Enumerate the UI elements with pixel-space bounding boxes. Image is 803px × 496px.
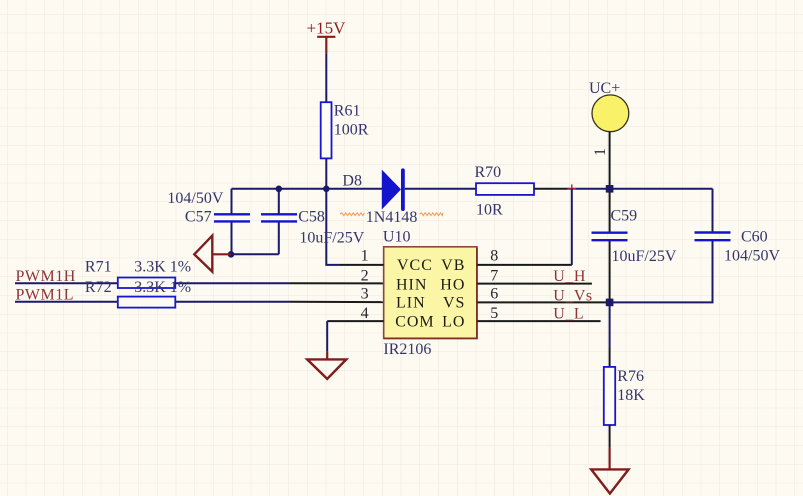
wire R71 to pin2: [175, 282, 290, 284]
svg-text:10R: 10R: [476, 202, 503, 219]
capacitor C60: [695, 229, 781, 265]
svg-text:D8: D8: [342, 172, 362, 189]
pin 8 VB: [441, 248, 572, 274]
node junction R61 bottom: [323, 186, 330, 193]
svg-text:U10: U10: [383, 228, 411, 245]
power symbol +15V: [307, 19, 347, 54]
node junction C58 top: [276, 186, 283, 193]
svg-text:104/50V: 104/50V: [167, 190, 223, 207]
svg-text:R72: R72: [85, 279, 112, 296]
svg-text:1: 1: [361, 248, 369, 265]
svg-text:7: 7: [490, 268, 498, 285]
svg-text:5: 5: [490, 305, 498, 322]
pin 6 VS: [443, 286, 606, 312]
wire C60 branch: [610, 189, 713, 303]
svg-text:100R: 100R: [334, 121, 369, 138]
svg-text:8: 8: [490, 248, 498, 265]
svg-text:10uF/25V: 10uF/25V: [612, 248, 677, 265]
svg-text:2: 2: [361, 268, 369, 285]
capacitor C57: [167, 189, 250, 255]
pin 1 of UC+: [592, 132, 610, 189]
svg-text:C59: C59: [611, 208, 638, 225]
node junction bottom rail: [228, 251, 235, 258]
svg-text:LIN: LIN: [396, 295, 426, 312]
pin 7 HO: [440, 268, 592, 294]
svg-text:R76: R76: [617, 368, 644, 385]
ground (R76): [591, 448, 628, 494]
wire R70 to UC junction: [534, 188, 572, 190]
power port UC+: [589, 80, 629, 132]
IC U10 IR2106: [383, 228, 477, 358]
resistor R70: [475, 164, 535, 219]
wire bottom rail C57-C58: [231, 253, 279, 255]
svg-text:C58: C58: [298, 209, 325, 226]
svg-text:VS: VS: [443, 295, 465, 312]
capacitor C59: [592, 192, 677, 302]
ground (COM pin4): [307, 321, 346, 379]
svg-text:+15V: +15V: [307, 19, 347, 38]
net label PWM1L: [15, 286, 118, 303]
svg-text:18K: 18K: [617, 387, 645, 404]
diode D8: [342, 170, 403, 209]
svg-text:1: 1: [592, 148, 609, 156]
svg-text:C60: C60: [741, 229, 768, 246]
resistor R71: [85, 258, 191, 288]
node junction VS rail (square): [606, 299, 614, 307]
svg-text:U_L: U_L: [553, 306, 584, 323]
net label PWM1H: [15, 268, 118, 285]
svg-text:HIN: HIN: [396, 277, 427, 294]
svg-text:R61: R61: [334, 103, 361, 120]
svg-text:U_H: U_H: [553, 268, 586, 285]
svg-text:1N4148: 1N4148: [366, 209, 418, 226]
svg-text:R70: R70: [475, 164, 502, 181]
ground left (C57/C58): [194, 236, 231, 272]
svg-text:VB: VB: [441, 257, 465, 274]
wire top rail C57 to diode: [232, 188, 383, 190]
svg-text:4: 4: [361, 305, 369, 322]
resistor R61: [321, 102, 369, 158]
svg-text:104/50V: 104/50V: [724, 248, 780, 265]
svg-text:R71: R71: [85, 258, 112, 275]
svg-text:3: 3: [361, 286, 369, 303]
resistor R76: [604, 302, 646, 448]
svg-text:3.3K 1%: 3.3K 1%: [134, 259, 191, 276]
wire R61 to top rail: [325, 158, 327, 188]
wire +15V to R61: [325, 53, 327, 102]
capacitor C58: [261, 189, 365, 255]
pin 4 COM: [327, 305, 434, 331]
svg-text:10uF/25V: 10uF/25V: [299, 229, 364, 246]
svg-text:IR2106: IR2106: [383, 341, 431, 358]
svg-text:U_Vs: U_Vs: [553, 287, 592, 304]
resistor R72: [85, 279, 191, 308]
wire diode to R70: [405, 188, 476, 190]
svg-text:LO: LO: [442, 314, 465, 331]
svg-text:6: 6: [490, 286, 498, 303]
svg-text:VCC: VCC: [397, 257, 433, 274]
svg-text:C57: C57: [185, 209, 212, 226]
node junction UC/C59 (square): [606, 185, 614, 193]
svg-text:3.3K 1%: 3.3K 1%: [134, 279, 191, 296]
squiggle error marker: [340, 213, 365, 216]
svg-text:UC+: UC+: [589, 80, 620, 97]
pin 3 LIN: [361, 286, 426, 312]
wire R72 to pin3: [175, 301, 290, 303]
svg-text:HO: HO: [440, 277, 465, 294]
pin 1 VCC: [340, 248, 433, 274]
pin 5 LO: [442, 305, 601, 331]
pin 2 HIN: [361, 268, 428, 294]
wire pin1 drop: [326, 189, 340, 265]
wire pin8 vertical: [571, 189, 573, 265]
svg-text:COM: COM: [395, 314, 434, 331]
no-ERC cross: [567, 184, 576, 193]
